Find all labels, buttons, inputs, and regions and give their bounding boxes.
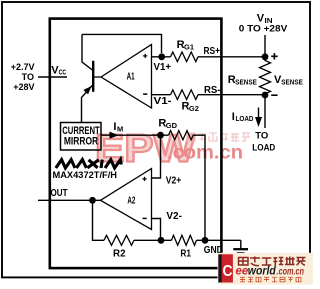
svg-text:C: C [223,263,233,280]
logo MAXIM [56,160,121,168]
svg-text:R1: R1 [180,248,191,259]
wire collector lead [82,34,93,70]
svg-text:world: world [248,265,277,277]
svg-text:LOAD: LOAD [252,142,275,153]
svg-text:V2-: V2- [166,211,182,222]
node V1+ junction [158,53,165,60]
resistor RGD [169,131,194,140]
ground [240,240,242,249]
pin A1 plus [143,54,147,58]
svg-text:.com.cn: .com.cn [277,266,305,277]
svg-text:V2+: V2+ [166,175,182,186]
wire V2+ [152,135,161,178]
node TO LOAD label [252,130,275,153]
node RSENSE top junction [262,53,269,60]
wire RS- [198,94,265,96]
wire IM with arrow [101,134,169,136]
node bottom junction [158,237,165,244]
wire RGD to GND junction [193,135,205,240]
svg-text:CC: CC [59,68,67,77]
pin A1 minus [143,93,147,95]
svg-text:LOAD: LOAD [236,116,254,123]
svg-text:M: M [117,124,123,133]
wire top wire collector to V1+ node [82,34,162,53]
wire V1- [152,94,171,96]
node IM junction [157,132,164,139]
watermark chinese small [187,133,250,141]
svg-text:SENSE: SENSE [235,79,257,86]
resistor RG1 [171,52,199,62]
svg-text:MAX4372T/F/H: MAX4372T/F/H [53,170,118,180]
node RSENSE bottom junction [262,92,269,99]
node VIN label [239,13,288,35]
transistor Q1 emitter with arrow [82,85,94,123]
svg-text:TO: TO [255,130,268,141]
svg-text:0 TO +28V: 0 TO +28V [239,23,288,34]
wire V1+ [152,56,171,58]
svg-text:TO: TO [22,72,34,82]
wire OUT [38,199,101,201]
node GND junction [202,237,209,244]
watermark eeworld logo [218,253,314,285]
svg-text:V1-: V1- [154,96,172,107]
wire to load [264,95,266,128]
watermark EPW letters [95,128,195,171]
svg-text:V1+: V1+ [154,62,172,73]
svg-text:R2: R2 [113,249,126,260]
current mirror block [61,123,102,151]
pin A2 minus [143,217,147,219]
IC box MAX4372 [50,19,222,269]
resistor R1 [172,235,197,245]
svg-text:MIRROR: MIRROR [64,135,98,147]
svg-text:+2.7V: +2.7V [11,62,35,72]
node VCC label +2.7V TO +28V [11,62,35,92]
resistor RSENSE [260,57,271,95]
wire GND [197,239,241,241]
svg-text:I: I [113,121,116,133]
transistor Q1 bar [92,61,94,92]
pin A2 plus [142,177,146,181]
wire VCC stub [38,76,67,78]
svg-text:OUT: OUT [51,188,68,199]
svg-text:SENSE: SENSE [281,79,303,86]
resistor RG2 [171,90,199,100]
svg-text:A1: A1 [127,72,135,83]
wire VIN drop [264,35,266,57]
watermark .com.cn [167,143,243,164]
svg-text:GD: GD [166,121,178,130]
svg-text:I: I [232,111,235,123]
op-amp A1 [101,45,152,109]
wire bottom net [134,239,172,241]
wire V2- [152,219,161,241]
svg-text:A2: A2 [127,195,135,206]
pin VCC label [51,64,66,76]
svg-text:G1: G1 [184,43,194,52]
svg-text:+28V: +28V [13,82,34,92]
wire feedback down from OUT node [93,200,105,240]
svg-text:RS+: RS+ [204,46,221,57]
op-amp A2 [101,169,152,230]
node OUT junction [89,197,96,204]
wire RS+ [198,56,265,58]
ILOAD arrow [258,108,260,119]
svg-text:G2: G2 [189,104,199,113]
svg-text:RS-: RS- [204,85,221,96]
wire base [93,76,101,78]
resistor R2 [104,235,134,245]
